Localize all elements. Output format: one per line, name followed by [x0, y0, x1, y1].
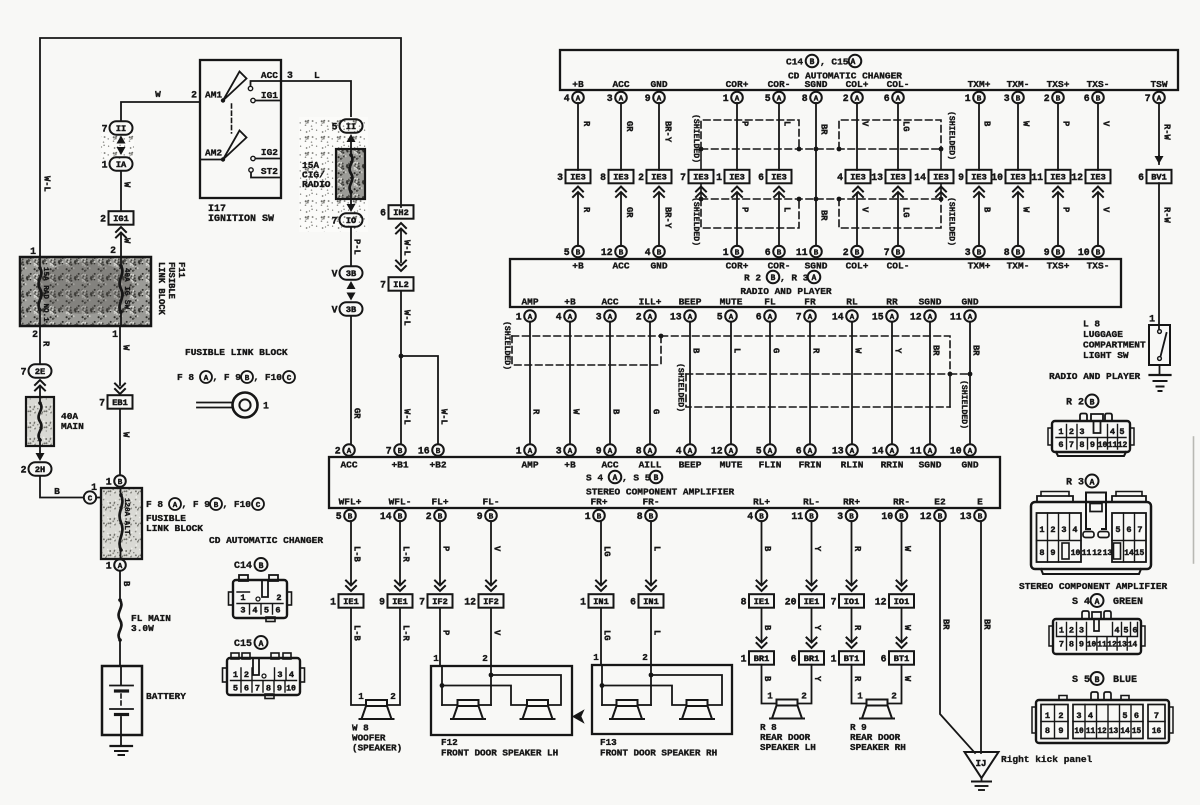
amplifier pin FLIN 5(A)	[756, 444, 782, 470]
wire P-L	[351, 227, 362, 266]
CD changer pin GND 9(A)	[645, 79, 668, 104]
svg-text:14: 14	[1120, 728, 1130, 736]
amplifier pin AMP 1(A)	[516, 444, 539, 470]
wire B radio to amplifier	[610, 322, 621, 444]
ignition switch caption I17	[208, 204, 274, 225]
svg-text:5: 5	[1115, 525, 1120, 535]
connector face R 2(B)	[1066, 395, 1099, 409]
label 15A CIG/RADIO	[302, 160, 331, 190]
svg-text:SPEAKER RH: SPEAKER RH	[850, 742, 906, 753]
connector 12[IE3]	[1071, 170, 1110, 184]
connector 1[IE3]	[716, 170, 749, 184]
amplifier pin ACC 2(A)	[335, 444, 358, 470]
svg-text:IE3: IE3	[1050, 173, 1065, 183]
svg-text:1: 1	[263, 401, 269, 412]
svg-text:2: 2	[390, 691, 396, 702]
svg-text:FUSIBLE LINK BLOCK: FUSIBLE LINK BLOCK	[185, 347, 288, 358]
ignition switch I17 box	[200, 60, 281, 198]
shield labels middle	[502, 321, 969, 429]
svg-text:W: W	[1021, 121, 1031, 127]
svg-text:1: 1	[965, 93, 971, 104]
svg-text:A: A	[259, 640, 264, 649]
svg-text:V: V	[860, 207, 870, 213]
svg-text:2: 2	[801, 691, 807, 702]
svg-text:B: B	[1090, 398, 1095, 407]
svg-text:A: A	[968, 314, 973, 322]
svg-text:3: 3	[1004, 93, 1010, 104]
svg-text:1: 1	[1045, 711, 1050, 721]
svg-text:R 3: R 3	[1066, 478, 1084, 489]
svg-text:IE3: IE3	[693, 173, 708, 183]
svg-text:+B1: +B1	[391, 460, 408, 471]
svg-text:10: 10	[950, 445, 962, 456]
svg-text:1: 1	[593, 652, 599, 663]
svg-text:GR: GR	[624, 207, 634, 218]
svg-text:A: A	[648, 314, 653, 322]
svg-text:A: A	[528, 314, 533, 322]
ignition IG2 contact	[251, 156, 281, 160]
arrow out of fuse	[347, 199, 356, 212]
svg-text:GND: GND	[650, 79, 667, 90]
svg-text:L: L	[652, 630, 662, 635]
connector 7[IE3]	[680, 170, 713, 184]
amplifier pin +B 3(A)	[556, 444, 576, 470]
svg-text:C15: C15	[234, 639, 252, 650]
svg-text:V: V	[332, 268, 338, 279]
svg-text:(SHIELDED): (SHIELDED)	[691, 197, 701, 246]
svg-text:FRONT DOOR SPEAKER LH: FRONT DOOR SPEAKER LH	[441, 748, 558, 759]
svg-text:IE1: IE1	[343, 597, 358, 607]
wire W radio to amplifier	[570, 322, 581, 444]
svg-text:GND: GND	[650, 261, 667, 272]
svg-text:A: A	[528, 448, 533, 456]
svg-text:LIGHT SW: LIGHT SW	[1083, 350, 1129, 361]
connector 6[IE3]	[758, 170, 791, 184]
svg-text:FR+: FR+	[590, 497, 607, 508]
svg-text:6: 6	[796, 445, 802, 456]
wire L IE3 to radio	[779, 193, 792, 246]
svg-text:S 5: S 5	[1072, 675, 1090, 686]
svg-text:B: B	[54, 486, 60, 497]
amplifier pin +B2 16(B)	[418, 444, 447, 470]
svg-text:2: 2	[642, 652, 648, 663]
connector V(3B) lower	[332, 302, 363, 316]
svg-text:12: 12	[1092, 549, 1102, 558]
svg-text:BR: BR	[931, 345, 941, 356]
svg-text:3: 3	[1079, 626, 1084, 636]
svg-text:BV1: BV1	[1151, 173, 1166, 183]
wire GR IE3 to radio	[621, 193, 634, 246]
stereo component amplifier box	[329, 457, 1000, 508]
shield box COL lower	[839, 199, 941, 228]
battery	[102, 666, 186, 735]
svg-text:B: B	[1096, 249, 1101, 257]
svg-text:BR1: BR1	[804, 654, 819, 664]
arrows into IL2	[396, 261, 406, 272]
svg-text:V: V	[492, 630, 502, 636]
svg-text:4: 4	[837, 172, 843, 183]
fuse 40A MAIN	[26, 397, 84, 446]
amplifier pin ACC 9(A)	[596, 444, 619, 470]
svg-text:10: 10	[1074, 728, 1084, 736]
amplifier pin +B1 7(B)	[386, 444, 409, 470]
CD changer pin TXM+ 1(B)	[965, 79, 991, 104]
CD automatic changer box	[560, 50, 1178, 90]
svg-text:FLIN: FLIN	[759, 460, 782, 471]
svg-text:TXS+: TXS+	[1047, 261, 1070, 272]
svg-text:RR: RR	[886, 297, 898, 308]
shield labels upper	[691, 111, 957, 163]
radio pin COL- 7(B)	[884, 246, 910, 272]
rear door speaker RH symbol	[857, 691, 897, 719]
svg-text:B: B	[657, 249, 662, 257]
connector 6[IN1]	[646, 581, 656, 592]
connector 7[IL2]	[380, 277, 413, 291]
svg-text:1: 1	[112, 329, 118, 340]
svg-text:13: 13	[871, 172, 883, 183]
svg-text:P: P	[1061, 121, 1071, 126]
wire L from ACC to cig fuse	[281, 70, 351, 119]
svg-text:, R 3: , R 3	[780, 273, 809, 284]
wire B to junction C	[40, 476, 83, 498]
svg-text:14: 14	[914, 172, 926, 183]
svg-text:9: 9	[477, 511, 483, 522]
wire P IF2 to F12	[433, 608, 450, 666]
svg-text:7: 7	[884, 247, 890, 258]
svg-text:7: 7	[386, 445, 392, 456]
CD changer pin TXS- 6(B)	[1084, 79, 1110, 104]
svg-text:A: A	[968, 448, 973, 456]
svg-text:13: 13	[670, 311, 682, 322]
wire L-B IE1 to woofer	[351, 608, 366, 705]
svg-text:10: 10	[286, 685, 296, 694]
svg-text:6: 6	[380, 207, 386, 218]
svg-text:IGNITION SW: IGNITION SW	[208, 214, 274, 225]
rear door speaker LH symbol	[767, 691, 807, 719]
svg-text:7: 7	[102, 123, 108, 134]
svg-text:10: 10	[881, 511, 893, 522]
radio pin TXS+ 9(B)	[1044, 246, 1070, 272]
svg-text:SGND: SGND	[919, 460, 942, 471]
svg-text:W: W	[902, 546, 912, 552]
svg-text:7: 7	[99, 397, 105, 408]
svg-text:13: 13	[960, 511, 972, 522]
svg-text:BR: BR	[941, 619, 951, 630]
svg-text:LINK BLOCK: LINK BLOCK	[156, 262, 166, 316]
svg-text:E: E	[977, 497, 983, 508]
amplifier title S 4(A), S 5(B)	[586, 471, 662, 484]
svg-text:7: 7	[1069, 440, 1074, 450]
amplifier pin E2 12(B)	[920, 497, 946, 522]
svg-text:COMPARTMENT: COMPARTMENT	[1083, 340, 1146, 351]
radio pin TXM- 8(B)	[1004, 246, 1030, 272]
F12 internal wiring	[440, 666, 561, 705]
wire V IF2 to F12	[482, 608, 501, 666]
svg-text:P: P	[740, 121, 750, 126]
svg-text:C: C	[88, 496, 93, 504]
svg-text:IO1: IO1	[844, 597, 859, 607]
connector 2(2H)	[21, 462, 52, 476]
svg-text:13: 13	[1103, 549, 1113, 558]
ring terminal symbol	[197, 393, 269, 418]
connector 3[IE3]	[557, 170, 590, 184]
svg-text:ILL+: ILL+	[639, 297, 662, 308]
svg-text:FL-: FL-	[482, 497, 499, 508]
wire B IE3 to radio	[979, 193, 992, 246]
svg-text:6: 6	[275, 606, 280, 616]
woofer caption	[352, 723, 402, 754]
radio pin FR 7(A)	[796, 297, 816, 323]
connector 1[IN1]	[596, 581, 606, 592]
svg-text:14: 14	[1128, 642, 1138, 650]
svg-text:W: W	[122, 238, 132, 244]
svg-text:GR: GR	[624, 121, 634, 132]
svg-text:2H: 2H	[35, 465, 45, 475]
svg-text:1: 1	[723, 247, 729, 258]
svg-text:IL2: IL2	[393, 280, 408, 290]
svg-text:4: 4	[676, 445, 682, 456]
svg-text:C: C	[256, 502, 261, 510]
svg-text:L: L	[782, 121, 792, 126]
svg-text:13: 13	[1117, 642, 1127, 650]
svg-text:B: B	[1016, 249, 1021, 257]
svg-text:MAIN: MAIN	[61, 421, 84, 432]
CD changer pin +B 4(A)	[564, 79, 584, 104]
wire BR from E2 to right kick panel ground	[940, 521, 975, 753]
connector 6[BV1]	[1155, 156, 1164, 164]
svg-text:1: 1	[106, 476, 112, 487]
svg-text:A: A	[768, 314, 773, 322]
svg-text:Y: Y	[812, 546, 822, 552]
wire B to FL MAIN	[120, 572, 131, 600]
svg-text:, C15: , C15	[820, 57, 849, 68]
svg-text:3: 3	[240, 606, 245, 616]
amplifier pin SGND 11(A)	[910, 444, 942, 470]
amplifier pin RLIN 13(A)	[832, 444, 864, 470]
svg-text:Y: Y	[812, 676, 822, 682]
amplifier pin FR- 8(B)	[637, 497, 660, 522]
svg-text:IO: IO	[346, 216, 356, 226]
svg-text:V: V	[860, 121, 870, 127]
svg-text:A: A	[928, 314, 933, 322]
connector 7[IF2]	[435, 581, 445, 592]
svg-text:1: 1	[723, 93, 729, 104]
svg-text:9: 9	[1050, 548, 1055, 558]
svg-text:LUGGAGE: LUGGAGE	[1083, 329, 1123, 340]
svg-text:IE3: IE3	[890, 173, 905, 183]
svg-text:BLUE: BLUE	[1113, 675, 1137, 686]
right kick panel ground IJ	[965, 752, 999, 790]
svg-text:A: A	[1095, 598, 1100, 607]
radio pin +B 5(B)	[564, 246, 584, 272]
svg-text:B: B	[214, 502, 219, 510]
woofer W8 speaker symbol	[358, 691, 396, 719]
svg-text:W: W	[122, 182, 132, 188]
CD changer title C14(B), C15(A)	[786, 55, 861, 68]
ignition switch labels	[205, 70, 278, 177]
wire R BT1 to rear speaker RH	[852, 665, 867, 704]
svg-text:11: 11	[1031, 172, 1043, 183]
luggage compartment light switch L8	[1149, 314, 1170, 366]
connector V(3B) upper	[332, 266, 363, 280]
svg-text:6: 6	[630, 596, 636, 607]
connector 1[IE1]	[346, 581, 356, 592]
amplifier pin E 13(B)	[960, 497, 986, 522]
svg-text:SGND: SGND	[919, 297, 942, 308]
connector 12[IO1]	[897, 581, 907, 592]
svg-text:1: 1	[106, 560, 112, 571]
svg-text:A: A	[768, 448, 773, 456]
svg-text:2: 2	[1069, 427, 1074, 437]
amplifier pin AILL 8(A)	[636, 444, 662, 470]
svg-text:W-L: W-L	[42, 176, 52, 192]
svg-text:1: 1	[433, 653, 439, 664]
svg-text:B: B	[121, 581, 131, 587]
svg-text:2: 2	[891, 691, 897, 702]
wire W-L between IH2 and IL2	[401, 229, 412, 262]
svg-text:GND: GND	[961, 297, 978, 308]
chevron below 2E	[35, 380, 45, 391]
amplifier pin FL- 9(B)	[477, 497, 500, 522]
svg-text:, F 9: , F 9	[213, 372, 242, 383]
svg-text:1: 1	[580, 596, 586, 607]
radio pin COL+ 2(B)	[843, 246, 869, 272]
wire B BR1 to rear speaker LH	[762, 665, 777, 704]
amplifier pin RL- 11(B)	[791, 497, 820, 522]
svg-text:COR-: COR-	[768, 79, 791, 90]
svg-text:12: 12	[910, 311, 922, 322]
svg-text:(SHIELDED): (SHIELDED)	[947, 197, 957, 246]
svg-text:FR-: FR-	[642, 497, 659, 508]
svg-text:B: B	[1095, 676, 1100, 685]
svg-text:4: 4	[1088, 711, 1093, 721]
svg-text:1: 1	[1059, 626, 1064, 636]
svg-text:2: 2	[1044, 93, 1050, 104]
F12 speaker symbol right	[527, 700, 548, 706]
svg-text:1: 1	[30, 246, 36, 257]
svg-text:2: 2	[1069, 626, 1074, 636]
svg-text:B: B	[777, 249, 782, 257]
radio pin ACC 12(B)	[601, 246, 630, 272]
svg-text:9: 9	[379, 596, 385, 607]
svg-text:15A RAD NO.1: 15A RAD NO.1	[41, 267, 49, 322]
svg-text:6: 6	[1134, 711, 1139, 721]
svg-text:RR-: RR-	[893, 497, 910, 508]
svg-text:IE3: IE3	[729, 173, 744, 183]
radio pin TXM+ 3(B)	[965, 246, 991, 272]
svg-text:9: 9	[958, 172, 964, 183]
svg-text:W: W	[571, 409, 581, 415]
svg-text:1: 1	[516, 311, 522, 322]
svg-text:11: 11	[791, 511, 803, 522]
radio pin COR- 6(B)	[765, 246, 791, 272]
svg-text:TXS-: TXS-	[1087, 79, 1110, 90]
ignition switch dashed link	[231, 104, 233, 133]
svg-text:IF2: IF2	[483, 597, 498, 607]
amplifier pin RL+ 4(B)	[747, 497, 770, 522]
svg-text:IA: IA	[116, 160, 127, 170]
wire B CD changer to IE3	[979, 103, 992, 170]
wire R to BT1	[852, 608, 863, 641]
svg-text:15: 15	[872, 311, 884, 322]
svg-text:B: B	[762, 676, 772, 682]
svg-text:12: 12	[464, 596, 476, 607]
ignition ACC contact	[248, 81, 281, 91]
fusible link block F11	[20, 246, 151, 326]
wire V IE3 to radio	[1098, 193, 1111, 246]
svg-text:R: R	[581, 207, 591, 213]
svg-text:RL: RL	[846, 297, 858, 308]
radio pin ACC 3(A)	[596, 297, 619, 323]
svg-text:AILL: AILL	[639, 460, 662, 471]
connector face S 4(A) GREEN	[1072, 594, 1143, 608]
svg-text:B: B	[982, 121, 992, 127]
svg-text:FR: FR	[804, 297, 816, 308]
pointer arrow between F12 and F13	[573, 710, 585, 723]
svg-text:A: A	[850, 314, 855, 322]
svg-text:LG: LG	[602, 546, 612, 557]
svg-text:1: 1	[240, 593, 245, 603]
wire R-W BV1 to luggage light switch	[1159, 183, 1172, 329]
svg-text:1: 1	[516, 445, 522, 456]
wire R IE3 to radio	[578, 193, 591, 246]
svg-text:IE1: IE1	[804, 597, 819, 607]
svg-text:3: 3	[607, 93, 613, 104]
radio pin AMP 1(A)	[516, 297, 539, 323]
svg-text:L-R: L-R	[401, 546, 411, 563]
wire BR from E to right kick panel ground	[981, 521, 992, 753]
svg-text:R: R	[581, 121, 591, 127]
svg-text:W: W	[155, 89, 161, 100]
svg-text:BR: BR	[971, 345, 981, 356]
shield box COR upper	[701, 120, 799, 149]
svg-text:TXS+: TXS+	[1047, 79, 1070, 90]
svg-text:AMP: AMP	[521, 460, 538, 471]
svg-text:S 4: S 4	[586, 473, 603, 484]
svg-text:RLIN: RLIN	[841, 460, 864, 471]
arrow into II	[347, 134, 356, 142]
svg-text:6: 6	[765, 247, 771, 258]
wire BR-Y IE3 to radio	[659, 193, 673, 246]
svg-text:FRONT DOOR SPEAKER RH: FRONT DOOR SPEAKER RH	[600, 748, 717, 759]
amplifier pin MUTE 12(A)	[711, 444, 743, 470]
svg-text:12: 12	[1107, 642, 1117, 650]
svg-text:A: A	[568, 314, 573, 322]
fuse 40A IG SW	[119, 257, 130, 326]
svg-text:BEEP: BEEP	[679, 460, 702, 471]
wire GR to amp ACC	[351, 316, 362, 444]
svg-text:RR+: RR+	[843, 497, 860, 508]
svg-text:(SHIELDED): (SHIELDED)	[947, 111, 957, 160]
svg-text:10: 10	[1078, 247, 1090, 258]
connector 2[IE3]	[638, 170, 671, 184]
svg-text:Y: Y	[893, 348, 903, 354]
wire BR-Y CD changer to IE3	[659, 103, 673, 170]
svg-text:3: 3	[965, 247, 971, 258]
svg-text:4: 4	[747, 511, 753, 522]
L8 caption	[1083, 319, 1146, 362]
svg-text:1: 1	[233, 670, 238, 680]
svg-text:7: 7	[1145, 93, 1151, 104]
svg-text:R: R	[41, 341, 51, 347]
label F11 FUSIBLE LINK BLOCK	[156, 262, 186, 316]
svg-text:5: 5	[1119, 427, 1124, 437]
scanner edge artifact	[1193, 437, 1195, 563]
svg-text:RRIN: RRIN	[881, 460, 904, 471]
CD changer pin TXM- 3(B)	[1004, 79, 1030, 104]
svg-text:STEREO COMPONENT AMPLIFIER: STEREO COMPONENT AMPLIFIER	[586, 487, 735, 498]
wire W from F11 to EB1	[112, 326, 130, 385]
